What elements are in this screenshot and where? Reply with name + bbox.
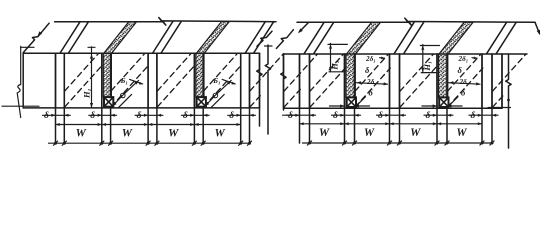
svg-text:Б₁: Б₁ <box>120 76 128 85</box>
right half right dimension line <box>506 54 511 148</box>
left half panel 3 front face <box>110 53 112 108</box>
left half dimension b gap 5 <box>228 114 256 116</box>
right half chain dimension base line <box>303 142 494 144</box>
left half rib 1 leader label cluster <box>112 93 125 106</box>
left half right height dimension line <box>265 45 270 134</box>
right half panel 1 hidden dashed edges <box>284 89 300 107</box>
left half dimension b gap 2 <box>89 114 117 116</box>
right half panel pitch arrow row seg 3 <box>390 123 438 125</box>
right half panel 5 hidden dashed edges <box>448 68 483 107</box>
right half first b row extension <box>283 114 300 116</box>
right half panel 2 hidden dashed edges <box>310 68 345 107</box>
svg-text:δ: δ <box>333 111 338 121</box>
left half dimension b gap 1 <box>43 114 71 116</box>
left half panel pitch arrow row seg 1 <box>56 124 102 126</box>
left half left height dimension line <box>17 46 21 117</box>
left half top-face cut diagonal <box>257 31 272 46</box>
svg-text:δ: δ <box>288 111 293 121</box>
svg-text:δ: δ <box>365 65 370 75</box>
left half right cut line of drawing <box>257 53 262 126</box>
right half panels bottom edge line <box>284 107 503 109</box>
left half panel 1 front face <box>22 53 24 108</box>
left half dimension b gap 4 <box>181 114 209 116</box>
svg-text:W: W <box>214 128 225 140</box>
left half panel 6 hidden dashed edges <box>250 96 260 107</box>
left half chain dimension base line <box>49 142 250 144</box>
svg-text:2δ: 2δ <box>366 78 375 86</box>
right half dimension b gap 5 <box>469 114 498 116</box>
left half joint gap 3 verticals <box>147 53 149 143</box>
right half panel pitch arrow row seg 2 <box>345 123 390 125</box>
right half rib 2 stippled top strip <box>347 22 381 54</box>
right half dimension b gap 4 <box>424 114 453 116</box>
svg-text:Б₁: Б₁ <box>212 76 220 85</box>
left half H1 dimension line at rib 1 <box>91 47 93 108</box>
svg-text:δ: δ <box>378 111 383 121</box>
left half panel pitch arrow row seg 2 <box>102 124 148 126</box>
right half joint gap 1 verticals <box>299 54 301 143</box>
left half joint gap 5 verticals <box>240 53 242 143</box>
svg-text:δ: δ <box>369 88 374 98</box>
left half joint gap 5 top-face edge pair <box>245 22 265 53</box>
left half back top edge <box>55 18 276 26</box>
right half dimension b gap 1 <box>287 114 316 116</box>
right half right bottom tick <box>488 107 511 109</box>
left half rib 2 stippled top strip <box>104 22 137 54</box>
left half panel 5 hidden dashed edges <box>204 65 242 107</box>
right half joint gap 2 verticals <box>344 54 346 143</box>
svg-text:δ: δ <box>90 111 95 121</box>
svg-text:δ: δ <box>461 88 466 98</box>
right half joint gap 5 top-face edge pair <box>487 22 507 53</box>
right half rib 4 stippled front strip <box>439 54 448 98</box>
svg-text:Н₁: Н₁ <box>422 61 432 72</box>
right half H1 dimension at rib 1 <box>330 43 332 71</box>
svg-text:δ: δ <box>44 111 49 121</box>
left half panel1 top-left receding edge with jog <box>23 23 49 52</box>
left half panel 5 front face <box>202 53 204 108</box>
right half rib 4 stippled top strip <box>439 22 473 54</box>
left half panel 2 hidden dashed edges <box>65 65 103 107</box>
svg-text:2δ₁: 2δ₁ <box>458 55 469 63</box>
right half panel 4 front face <box>399 54 401 108</box>
left half panel pitch arrow row seg 3 <box>148 124 194 126</box>
right half rib 1 label cluster <box>330 105 345 107</box>
left half rib 4 stippled front strip <box>196 53 204 97</box>
left half joint gap 4 verticals <box>193 53 195 143</box>
right half back edge right end arrow <box>535 22 540 33</box>
right half panel 3 front face <box>354 54 356 108</box>
svg-text:W: W <box>364 127 375 139</box>
right half front top edge extension <box>502 53 527 55</box>
svg-text:δ: δ <box>458 65 463 75</box>
svg-text:δ: δ <box>229 111 234 121</box>
svg-text:δ: δ <box>137 111 142 121</box>
left half panel 6 front face <box>249 53 251 108</box>
left half panel 2 front face <box>63 53 65 108</box>
right half joint gap 4 verticals <box>436 54 438 143</box>
svg-text:Н₁: Н₁ <box>330 60 340 71</box>
right half panel 2 front face <box>309 54 311 108</box>
left half panel 3 hidden dashed edges <box>111 65 149 107</box>
right half joint gap 1 top-face edge pair <box>304 22 324 53</box>
svg-text:W: W <box>456 127 467 139</box>
right half panel 6 hidden dashed edges <box>493 96 503 107</box>
right half rib 2 stippled front strip <box>346 54 355 98</box>
right half rib 4 cross-section node <box>439 97 448 107</box>
svg-text:δ: δ <box>426 111 431 121</box>
right half right panel edge bottom <box>501 54 503 108</box>
right half dimension b gap 3 <box>377 114 406 116</box>
right half panel pitch arrow row seg 4 <box>437 123 482 125</box>
svg-text:δ: δ <box>471 111 476 121</box>
left half joint gap 1 top-face edge pair <box>60 22 80 53</box>
left half panels bottom edge line <box>23 107 259 109</box>
right half back top edge <box>297 18 535 26</box>
left half rib 2 cross-section node <box>104 97 113 107</box>
right half panel 5 front face <box>446 54 448 108</box>
svg-text:W: W <box>168 128 179 140</box>
svg-text:2δ: 2δ <box>459 78 468 86</box>
left half panel 4 front face <box>156 53 158 108</box>
right half joint gap 3 verticals <box>389 54 391 143</box>
left half front top edge <box>23 52 104 54</box>
left half rib 4 cross-section node <box>197 97 206 107</box>
left half joint gap 3 top-face edge pair <box>153 22 173 53</box>
right half back edge left end cut arrow <box>300 23 309 32</box>
svg-text:Н₁: Н₁ <box>82 88 92 99</box>
right half top-face left cut diagonal <box>276 30 293 49</box>
right half rib 2 cross-section node <box>347 97 356 107</box>
svg-text:2δ₁: 2δ₁ <box>365 55 376 63</box>
left half left dimension bottom tick <box>2 105 39 107</box>
left half rib 2 leader label cluster <box>205 93 218 106</box>
svg-text:W: W <box>76 128 87 140</box>
right half front top edge <box>284 53 347 55</box>
right half rib 2 label cluster <box>422 105 437 107</box>
right half dimension b gap 2 <box>332 114 361 116</box>
left half dimension b gap 3 <box>135 114 163 116</box>
right half panel 6 front face <box>491 54 493 108</box>
left half joint gap 2 verticals <box>101 53 103 143</box>
right half joint gap 5 verticals <box>481 54 483 143</box>
right half panel 1 front face <box>283 54 285 108</box>
right half joint gap 3 top-face edge pair <box>394 22 414 53</box>
svg-text:W: W <box>410 127 421 139</box>
svg-text:W: W <box>122 128 133 140</box>
left half panel1 corner edge arrow mark <box>38 31 43 36</box>
right half panel 4 hidden dashed edges <box>400 65 438 107</box>
left half panel 4 hidden dashed edges <box>157 65 195 107</box>
left half left dimension top tick <box>21 46 34 48</box>
left half rib 2 stippled front strip <box>103 53 111 97</box>
left half joint gap 1 verticals <box>55 53 57 143</box>
left half rib 4 stippled top strip <box>196 22 229 54</box>
svg-text:W: W <box>319 127 330 139</box>
right half panel pitch arrow row seg 1 <box>300 123 345 125</box>
right half left cut line <box>281 54 286 110</box>
svg-text:δ: δ <box>183 111 188 121</box>
right half panel 3 hidden dashed edges <box>355 68 390 107</box>
left half panel pitch arrow row seg 4 <box>194 124 240 126</box>
right half H1 dimension at rib 2 <box>422 45 424 73</box>
